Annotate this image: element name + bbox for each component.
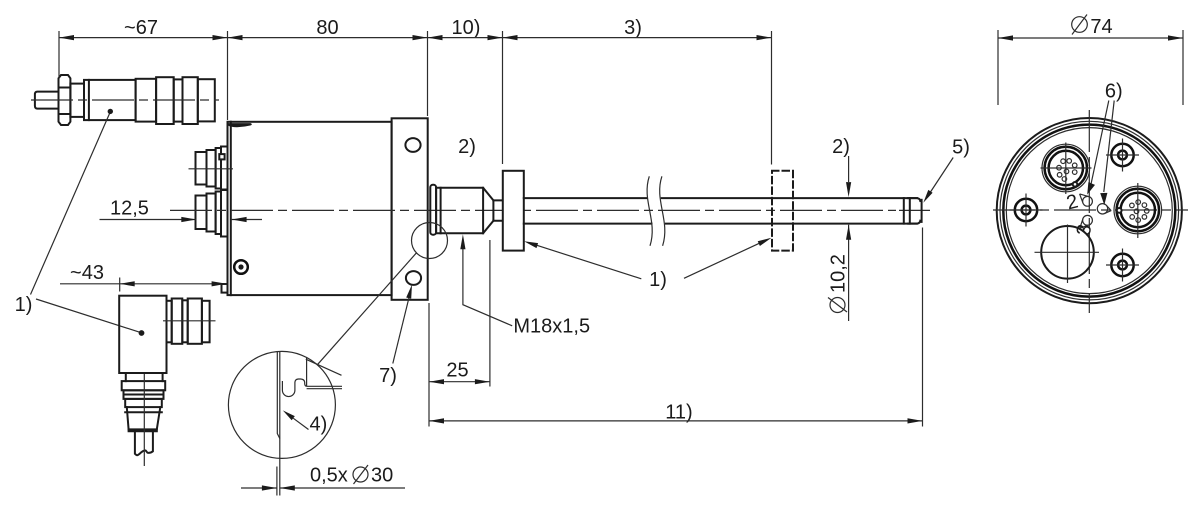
label 1) mid with leaders to magnets (524, 238, 772, 291)
dimension 3) (503, 17, 772, 165)
outer circle (997, 118, 1182, 303)
rib axis centerline (163, 320, 216, 322)
connector stub upper (side view) (189, 147, 234, 191)
o-ring groove (282, 379, 306, 397)
upper stub centerline (189, 168, 234, 170)
label tab bottom-left (222, 284, 228, 293)
svg-text:3): 3) (624, 17, 642, 39)
svg-text:5): 5) (952, 137, 970, 159)
magnet at variable position (dashed) (772, 171, 793, 251)
svg-text:25: 25 (446, 360, 468, 382)
svg-text:74: 74 (1090, 16, 1112, 38)
crosshair (1041, 167, 1092, 169)
pins (1130, 200, 1149, 223)
connector stub lower (side view) (196, 190, 228, 237)
flange hole top (405, 138, 420, 152)
body outline (228, 122, 392, 295)
svg-text:11): 11) (665, 401, 692, 423)
rod (left section) (524, 198, 652, 224)
connector B (right, 8-pin) (1114, 183, 1162, 238)
label 7) with leader to flange hole (379, 285, 412, 388)
gland ring A (122, 381, 166, 390)
svg-text:4): 4) (310, 414, 328, 436)
seal slot under top edge (229, 123, 252, 127)
screw center dot (238, 264, 243, 269)
index pin right (teardrop) (1097, 204, 1111, 214)
ring B inner line (124, 394, 164, 396)
keyway (1073, 182, 1078, 187)
neck (126, 373, 163, 381)
dimension 0,5x D30 (241, 465, 405, 496)
washer at flange (430, 185, 436, 235)
label 6) with two bold leaders (1087, 81, 1122, 206)
cable gland blank (large circle) (1035, 225, 1100, 284)
face line B (279, 352, 281, 496)
zoom circle on flange seal (412, 223, 448, 259)
thread relief line (440, 188, 442, 234)
main horizontal centerline (993, 209, 1188, 211)
seat line 2 (307, 388, 342, 390)
detail circle (228, 351, 335, 458)
dimension ~43 (60, 262, 227, 292)
svg-text:M18x1,5: M18x1,5 (513, 316, 590, 338)
barrel inner line (88, 80, 90, 120)
svg-text:0,5x: 0,5x (310, 465, 348, 487)
hex facet line top (59, 87, 71, 89)
ring 4 (1006, 128, 1172, 294)
cone shelf (129, 429, 157, 431)
hex facet line bottom (59, 113, 71, 115)
keyway notch on upper stub (219, 154, 224, 159)
svg-text:12,5: 12,5 (110, 198, 149, 220)
rib stub (167, 301, 172, 343)
label 1) top-left with leaders to both connectors (15, 109, 145, 336)
svg-text:1): 1) (15, 294, 33, 316)
ring 2 (1000, 121, 1179, 300)
cable (135, 431, 153, 455)
flange hole bottom (406, 271, 421, 285)
grip ring 2 tall (156, 77, 174, 124)
rib 1 (172, 299, 183, 344)
index pin 3 (teardrop lower) (1073, 215, 1097, 237)
svg-text:2): 2) (832, 136, 850, 158)
connector pin (35, 92, 59, 109)
rod break symbol (647, 176, 665, 246)
rib end (202, 301, 210, 343)
M18 thread hub (436, 188, 503, 234)
svg-text:7): 7) (379, 365, 397, 387)
rod (right section) (662, 198, 922, 224)
rib gap col (182, 300, 187, 342)
connector centerline (31, 99, 219, 101)
face line A (277, 352, 280, 439)
seat line 1 (307, 385, 342, 387)
barrel (84, 80, 136, 120)
position magnet (solid) (503, 171, 524, 251)
gland ring B (124, 390, 164, 399)
rib 2 (188, 299, 202, 344)
dimension 80 (228, 17, 428, 116)
label 2) right with arrow to rod (832, 136, 851, 197)
ring 3 bold (1003, 125, 1175, 297)
dimension ~67 (59, 17, 228, 120)
flange (392, 118, 428, 299)
grip ring 4 tall (183, 77, 198, 124)
dimension 10) (428, 17, 503, 164)
grip ring 3 (174, 79, 183, 121)
main vertical centerline (1088, 110, 1090, 313)
step ring (70, 84, 84, 117)
chamfer line (306, 359, 342, 375)
label 5) with leader to rod tip (923, 137, 970, 203)
svg-text:1): 1) (649, 269, 667, 291)
screw hole left (1010, 194, 1043, 227)
index pin 2 (teardrop upper) (1064, 190, 1092, 214)
svg-text:80: 80 (316, 17, 338, 39)
svg-text:~43: ~43 (70, 262, 104, 284)
cone edge line (482, 188, 484, 234)
main axis centerline (170, 209, 896, 211)
dimension D74 (998, 15, 1183, 106)
sensor housing body (222, 118, 428, 299)
pins (1057, 159, 1077, 182)
svg-text:10,2: 10,2 (828, 254, 850, 293)
dimension D10,2 rotated (828, 225, 852, 321)
gland ring C (125, 399, 162, 407)
svg-text:10): 10) (452, 17, 481, 39)
end view (rear face) (993, 110, 1188, 313)
screw hole bottom-right (1106, 249, 1139, 282)
square body (119, 296, 166, 373)
svg-text:2): 2) (458, 136, 476, 158)
detail view 4) (magnified flange face) (228, 351, 342, 495)
rod end groove (903, 198, 905, 224)
rod end face bar (908, 198, 920, 224)
grip ring 1 (136, 79, 157, 122)
angled connector (bottom-left) (119, 296, 215, 466)
svg-text:30: 30 (371, 465, 393, 487)
screw hole top-right (1106, 139, 1139, 172)
straight connector (top-left cable plug) (31, 75, 219, 125)
neck (493, 200, 502, 220)
leader zoom circle to detail view (317, 253, 416, 365)
dimension 25 (429, 240, 490, 387)
crosshair vertical (1137, 183, 1139, 238)
screw head side (234, 260, 248, 274)
grip end cap (198, 79, 215, 121)
svg-text:~67: ~67 (124, 17, 158, 39)
body inner edge line (230, 122, 232, 295)
keyway (1117, 208, 1122, 213)
hex coupling nut (59, 75, 71, 125)
dimension 11) (429, 228, 923, 427)
cable vertical centerline (143, 374, 145, 466)
connector A (top-left, 8-pin) (1041, 143, 1092, 195)
label M18x1,5 with leader (460, 234, 590, 337)
dimension 12,5 (100, 198, 263, 223)
thread start vertical (306, 357, 308, 386)
svg-text:6): 6) (1105, 81, 1123, 103)
gland cone (125, 407, 162, 429)
